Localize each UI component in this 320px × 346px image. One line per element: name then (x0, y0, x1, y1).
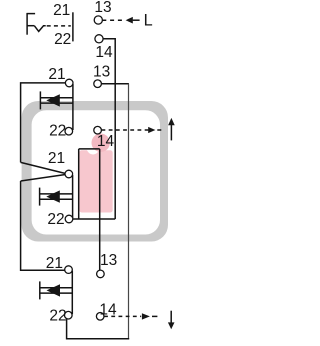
svg-text:22: 22 (47, 211, 64, 228)
svg-text:13: 13 (100, 252, 117, 269)
svg-text:L: L (144, 12, 153, 30)
svg-text:22: 22 (54, 31, 71, 48)
svg-text:21: 21 (53, 2, 70, 19)
svg-text:13: 13 (93, 64, 110, 81)
svg-text:22: 22 (49, 123, 66, 140)
svg-text:14: 14 (97, 133, 115, 150)
svg-text:21: 21 (46, 255, 63, 272)
svg-text:13: 13 (94, 0, 111, 16)
svg-text:14: 14 (95, 44, 113, 61)
svg-text:22: 22 (49, 308, 66, 325)
svg-text:21: 21 (48, 66, 65, 83)
svg-text:14: 14 (99, 302, 117, 319)
svg-text:21: 21 (48, 150, 65, 167)
